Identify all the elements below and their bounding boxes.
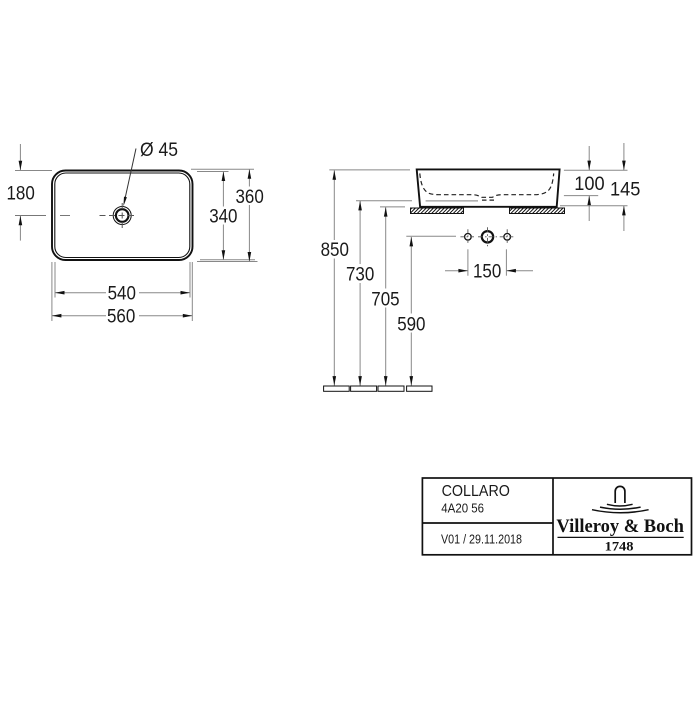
- logo ripple 1: [607, 504, 633, 506]
- drain hole outer circle: [113, 207, 131, 225]
- svg-text:COLLARO: COLLARO: [442, 483, 510, 500]
- svg-text:V01 / 29.11.2018: V01 / 29.11.2018: [441, 532, 522, 547]
- svg-text:Ø 45: Ø 45: [140, 139, 178, 161]
- dimension 360: [191, 169, 264, 261]
- dimension 560: [52, 262, 192, 328]
- dimension 150: [445, 249, 533, 282]
- dimension 340: [197, 172, 255, 260]
- leader Ø45: [123, 139, 178, 206]
- floor tile 1: [324, 386, 350, 391]
- basin top view inner rim: [55, 173, 190, 258]
- dimension 145: [560, 143, 641, 231]
- svg-text:560: 560: [107, 306, 135, 328]
- svg-text:540: 540: [108, 283, 136, 305]
- logo ripple 2: [600, 507, 641, 509]
- basin side view outline: [417, 169, 560, 206]
- faucet hole center: [478, 227, 497, 246]
- svg-text:100: 100: [574, 173, 605, 195]
- dimension 705: [371, 207, 405, 386]
- centerline left: [15, 215, 70, 217]
- svg-text:180: 180: [7, 183, 35, 205]
- dimension 850: [321, 170, 410, 386]
- countertop right section: [510, 208, 565, 214]
- drain crosshair vertical: [121, 203, 123, 229]
- basin top view outer rim: [52, 171, 193, 261]
- drain crosshair horizontal: [100, 215, 137, 217]
- dimension 590: [397, 236, 456, 385]
- basin inner bottom line: [426, 200, 478, 202]
- logo ripple 3: [592, 510, 649, 513]
- drain hidden dashes: [482, 199, 494, 201]
- svg-text:1748: 1748: [605, 540, 634, 554]
- dimension 180: [7, 144, 53, 241]
- svg-text:590: 590: [397, 313, 425, 335]
- countertop left section: [411, 208, 464, 214]
- svg-text:705: 705: [371, 288, 399, 310]
- floor tile 4: [407, 386, 432, 391]
- faucet hole left: [460, 229, 475, 244]
- svg-text:360: 360: [236, 186, 264, 208]
- dimension 730: [346, 201, 412, 386]
- svg-text:340: 340: [209, 206, 237, 228]
- faucet hole right: [500, 229, 515, 244]
- basin side view inner profile dashed: [420, 173, 554, 197]
- dimension 100: [564, 146, 628, 221]
- logo arch: [615, 486, 625, 503]
- svg-text:730: 730: [346, 264, 374, 286]
- dimension 540: [55, 262, 190, 305]
- floor tile 2: [351, 386, 377, 391]
- svg-text:150: 150: [473, 261, 501, 283]
- title block frame: [422, 478, 691, 555]
- svg-text:Villeroy & Boch: Villeroy & Boch: [556, 516, 684, 537]
- svg-text:145: 145: [610, 178, 641, 200]
- logo underline: [558, 536, 684, 538]
- drain hole inner circle: [116, 209, 129, 222]
- svg-text:850: 850: [321, 239, 349, 261]
- floor tile 3: [378, 386, 404, 391]
- svg-text:4A20 56: 4A20 56: [441, 501, 484, 516]
